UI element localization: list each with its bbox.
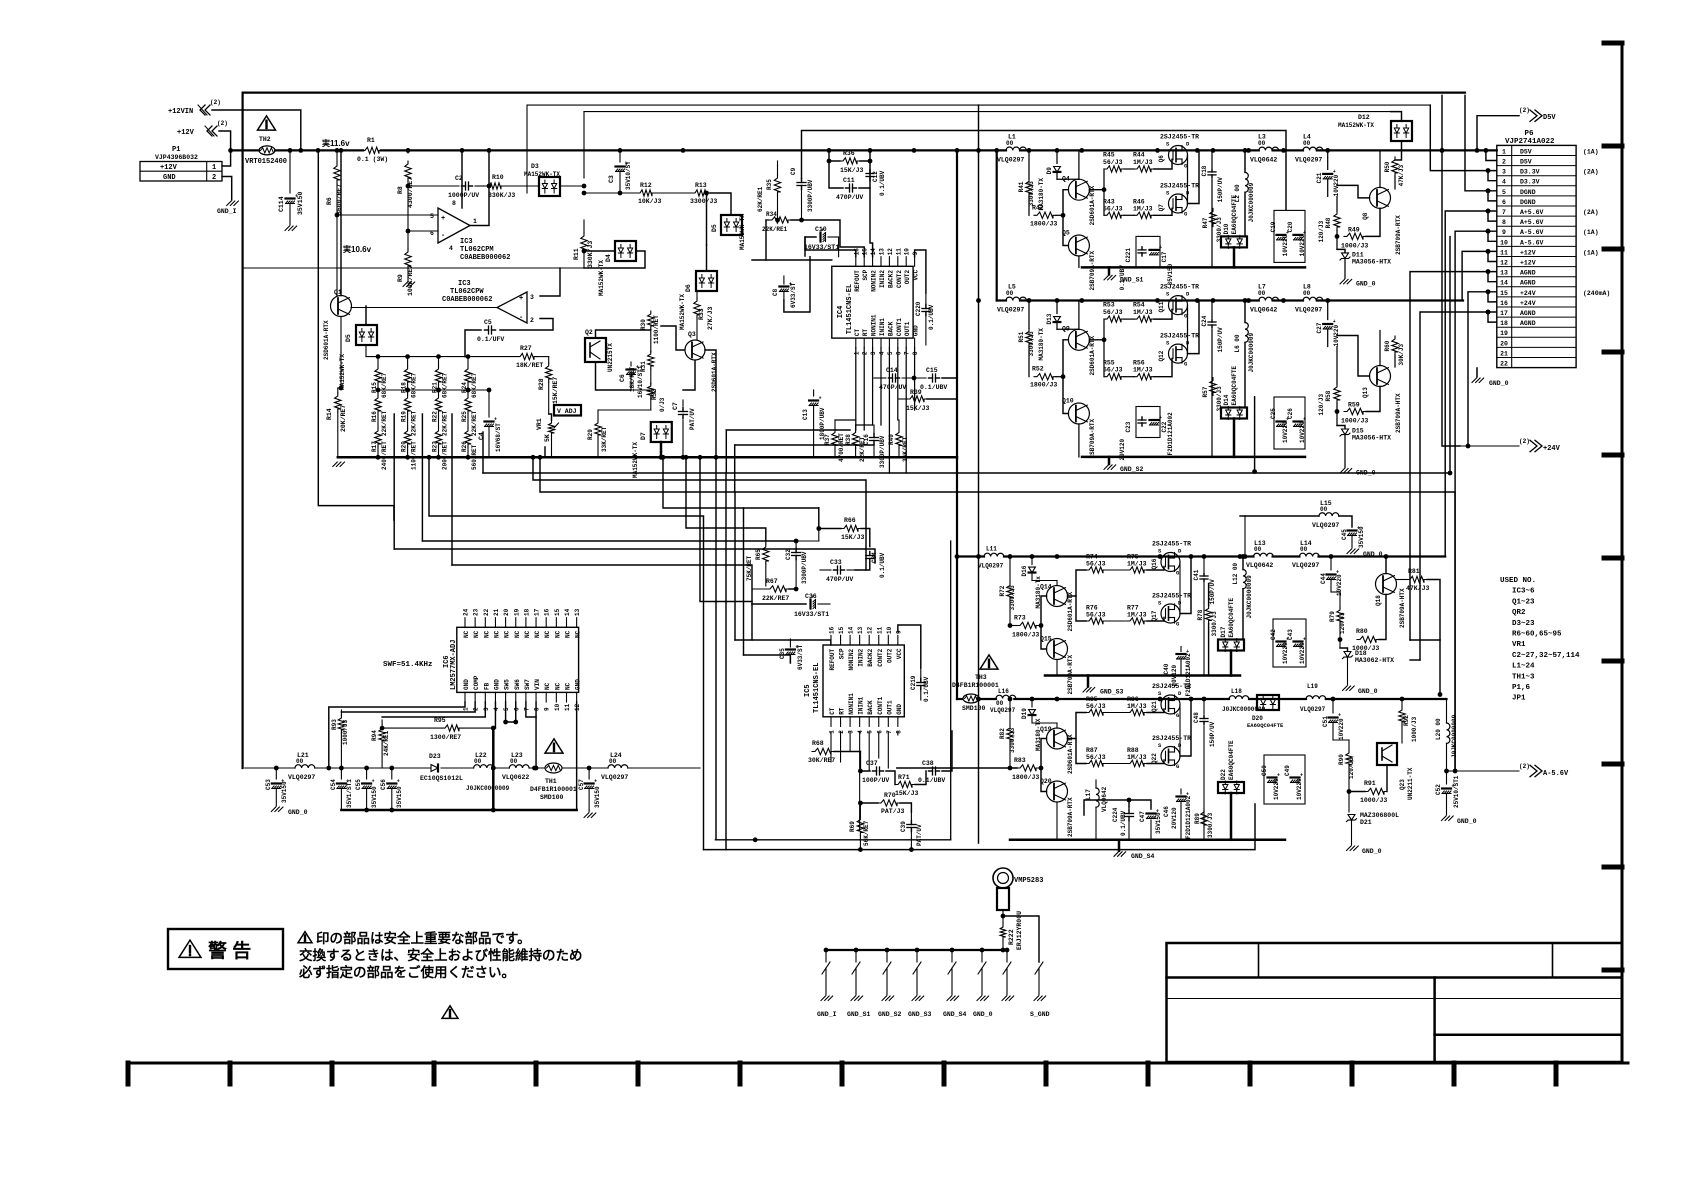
resistor R73 xyxy=(1017,622,1039,628)
resistor R85 xyxy=(1086,709,1106,715)
capacitor C9 xyxy=(801,179,803,183)
svg-text:Q17: Q17 xyxy=(1151,610,1158,621)
svg-text:8: 8 xyxy=(534,707,541,711)
svg-text:2SD601A-RTX: 2SD601A-RTX xyxy=(323,320,330,360)
svg-text:56/J3: 56/J3 xyxy=(1086,612,1106,619)
svg-text:VR1: VR1 xyxy=(1512,641,1526,649)
op-amp IC3 unit A xyxy=(438,208,470,243)
svg-text:D22: D22 xyxy=(1220,769,1227,780)
svg-text:SMD100: SMD100 xyxy=(540,794,564,801)
svg-text:16: 16 xyxy=(544,608,551,616)
svg-text:15K/J3: 15K/J3 xyxy=(895,790,919,797)
svg-text:D6: D6 xyxy=(685,284,692,292)
svg-text:6: 6 xyxy=(1502,199,1506,206)
resistor R40 xyxy=(896,430,902,449)
svg-text:GND_S1: GND_S1 xyxy=(847,1011,871,1018)
svg-text:35V150: 35V150 xyxy=(1155,812,1162,834)
wire staircase into IC5 xyxy=(751,604,753,640)
title block outer box xyxy=(1167,943,1623,1062)
diode pair D7 xyxy=(651,422,672,442)
svg-text:3300/J3: 3300/J3 xyxy=(1009,585,1016,611)
resistor R39 xyxy=(907,396,927,402)
svg-text:2SD601A-RTX: 2SD601A-RTX xyxy=(1089,185,1096,225)
svg-text:R30: R30 xyxy=(640,319,647,330)
svg-text:D15: D15 xyxy=(1352,428,1364,435)
svg-text:22K/RET: 22K/RET xyxy=(411,410,418,436)
svg-text:35V150: 35V150 xyxy=(594,786,601,808)
svg-text:0.1 (3W): 0.1 (3W) xyxy=(357,156,388,163)
svg-text:16V68/ST: 16V68/ST xyxy=(495,423,502,452)
svg-text:3300/J3: 3300/J3 xyxy=(1207,812,1214,838)
svg-text:1M/J3: 1M/J3 xyxy=(1127,561,1147,568)
svg-text:D16: D16 xyxy=(1021,565,1028,576)
transistor Q10 xyxy=(1068,403,1089,424)
wire ground-collect bus xyxy=(826,949,1007,951)
transistor Q9 xyxy=(1068,329,1089,350)
svg-text:VLQ0642: VLQ0642 xyxy=(1246,562,1273,569)
svg-text:R56: R56 xyxy=(1133,360,1145,367)
mosfet Q21 xyxy=(1161,695,1180,714)
svg-text:(2A): (2A) xyxy=(1583,209,1599,216)
capacitor C55 xyxy=(366,768,368,779)
svg-text:15K/J3: 15K/J3 xyxy=(840,167,864,174)
wire C5 left to ladder xyxy=(465,330,481,357)
svg-text:(1A): (1A) xyxy=(1583,229,1599,236)
resistor R76 xyxy=(1086,618,1106,624)
ground drop GND_0 xyxy=(980,948,985,953)
inductor L6 xyxy=(1245,323,1248,343)
svg-text:C42: C42 xyxy=(1270,629,1277,640)
svg-text:C16: C16 xyxy=(863,434,870,445)
wire gate network xyxy=(1068,713,1087,739)
svg-text:OUT1: OUT1 xyxy=(886,700,893,715)
svg-text:C5: C5 xyxy=(484,319,492,326)
svg-text:1000/J3: 1000/J3 xyxy=(1341,242,1368,249)
zener D21 xyxy=(1348,790,1350,812)
resistor R77 xyxy=(1127,618,1147,624)
svg-text:56/J3: 56/J3 xyxy=(1103,159,1123,166)
resistor R19 xyxy=(407,385,409,395)
svg-text:C12: C12 xyxy=(872,171,879,182)
resistor R31 xyxy=(650,329,652,352)
wire Q8 wiring xyxy=(1366,387,1380,412)
wire mosfet drains xyxy=(1187,155,1189,204)
svg-text:R6: R6 xyxy=(326,197,333,205)
capacitor C114 xyxy=(289,150,291,193)
resistor R82 xyxy=(1009,699,1011,725)
svg-text:2SD601A-RTX: 2SD601A-RTX xyxy=(1089,335,1096,375)
svg-text:R83: R83 xyxy=(1014,757,1026,764)
svg-text:4: 4 xyxy=(493,707,500,711)
svg-text:5: 5 xyxy=(1502,189,1506,196)
svg-text:15: 15 xyxy=(838,626,845,634)
IC6 pin 6 (SW6) xyxy=(515,692,517,702)
wire A-5.6V node xyxy=(1444,769,1449,774)
wire Q1 collector xyxy=(340,150,342,295)
resistor R81 xyxy=(1407,576,1427,582)
svg-text:D18: D18 xyxy=(1355,650,1367,657)
svg-text:00: 00 xyxy=(1006,290,1014,297)
wire IC4 pin wiring to R37/R38 xyxy=(835,419,856,421)
ground drop GND_S2 xyxy=(885,948,890,953)
svg-text:8: 8 xyxy=(452,200,456,207)
svg-text:11: 11 xyxy=(564,703,571,711)
IC6 pin 17 (NC) xyxy=(535,618,537,628)
svg-text:R68: R68 xyxy=(812,740,824,747)
wire long route y516 xyxy=(429,457,704,849)
svg-text:15: 15 xyxy=(862,248,869,256)
svg-text:VLQ0297: VLQ0297 xyxy=(1300,706,1326,713)
inductor L15 xyxy=(1319,513,1339,516)
svg-text:C219: C219 xyxy=(910,675,917,690)
svg-text:6: 6 xyxy=(513,707,520,711)
svg-text:1: 1 xyxy=(473,218,477,225)
IC6 pin 24 (NC) xyxy=(464,618,466,628)
svg-text:11: 11 xyxy=(895,248,902,256)
svg-text:EA60QC04FTE: EA60QC04FTE xyxy=(1228,740,1235,780)
wire +24V from converter xyxy=(1442,95,1460,446)
thermistor TH1 warning xyxy=(545,739,563,753)
svg-text:C13: C13 xyxy=(802,409,809,420)
svg-text:(2): (2) xyxy=(1519,763,1530,770)
svg-text:3: 3 xyxy=(483,707,490,711)
capacitor C14 xyxy=(889,377,893,379)
svg-text:15K/J3: 15K/J3 xyxy=(841,534,865,541)
svg-text:+12V: +12V xyxy=(1520,260,1536,267)
IC5 section box bottom xyxy=(715,839,950,841)
svg-text:F2D1D121A002: F2D1D121A002 xyxy=(1167,412,1174,456)
svg-text:C33: C33 xyxy=(830,559,842,566)
mosfet Q11 xyxy=(1169,296,1188,315)
svg-text:C20: C20 xyxy=(1287,221,1294,232)
resistor R6 xyxy=(336,150,338,163)
svg-text:2: 2 xyxy=(862,351,869,355)
svg-text:C27: C27 xyxy=(1316,322,1323,333)
svg-text:35V150: 35V150 xyxy=(396,786,403,808)
svg-text:56/J3: 56/J3 xyxy=(1103,205,1123,212)
svg-text:10: 10 xyxy=(1500,239,1508,246)
svg-text:D19: D19 xyxy=(1021,708,1028,719)
capacitor C47 xyxy=(1147,812,1156,814)
svg-text:VLQ0297: VLQ0297 xyxy=(288,774,315,781)
wire VCC pin9 to C220 xyxy=(915,250,926,293)
svg-text:18K/RET: 18K/RET xyxy=(629,366,636,392)
svg-text:14: 14 xyxy=(1500,280,1508,287)
svg-text:+: + xyxy=(1300,773,1303,779)
svg-text:EA60QC04FTE: EA60QC04FTE xyxy=(1247,722,1284,729)
svg-text:R66: R66 xyxy=(844,517,856,524)
wire IC4 staircase to bundle xyxy=(726,429,850,431)
IC4 pin 15 (SCP) xyxy=(863,257,865,267)
svg-text:20: 20 xyxy=(1500,340,1508,347)
svg-text:2: 2 xyxy=(530,317,534,324)
svg-text:VLQ0297: VLQ0297 xyxy=(997,156,1024,163)
svg-text:2SB709A-RTX: 2SB709A-RTX xyxy=(1395,215,1402,255)
svg-text:C114: C114 xyxy=(278,196,285,212)
svg-text:14: 14 xyxy=(848,626,855,634)
IC5 pin 8 (GND) xyxy=(897,717,899,727)
IC4 pin 12 (BACK2) xyxy=(888,257,890,267)
svg-text:R80: R80 xyxy=(1356,628,1368,635)
wire R34 node to IC4 pin15 xyxy=(791,220,864,257)
svg-text:1000/J3: 1000/J3 xyxy=(1341,418,1368,425)
svg-text:C14: C14 xyxy=(886,367,898,374)
wire D12 top feed xyxy=(1391,112,1402,121)
svg-text:VLQ0622: VLQ0622 xyxy=(502,774,529,781)
svg-text:A-5.6V: A-5.6V xyxy=(1520,239,1544,246)
capacitor C40 xyxy=(1177,653,1186,655)
svg-text:Q7: Q7 xyxy=(1158,204,1165,212)
svg-text:00: 00 xyxy=(1300,546,1308,553)
svg-text:GND_0: GND_0 xyxy=(1489,380,1509,387)
svg-text:IC3~6: IC3~6 xyxy=(1512,588,1535,596)
wire L21 row xyxy=(245,767,295,769)
capacitor C25 loop xyxy=(1274,397,1305,449)
capacitor C46 xyxy=(1177,795,1186,797)
svg-text:C47: C47 xyxy=(1139,811,1146,822)
IC6 pin 12 (GND) xyxy=(576,692,578,702)
svg-text:2: 2 xyxy=(838,730,845,734)
svg-text:R90: R90 xyxy=(1338,754,1345,765)
svg-text:CONT1: CONT1 xyxy=(877,696,884,714)
resistor R86 xyxy=(1127,709,1147,715)
svg-text:3: 3 xyxy=(870,351,877,355)
wire P1 pin2 to GND_I xyxy=(222,177,232,201)
connector arrow +24V xyxy=(1460,445,1519,447)
svg-text:10V220: 10V220 xyxy=(1282,421,1289,443)
wire zener to gnd xyxy=(1344,259,1346,278)
svg-text:NONIN1: NONIN1 xyxy=(871,314,878,336)
svg-text:TL062CPM: TL062CPM xyxy=(460,246,494,254)
svg-text:GND: GND xyxy=(463,679,470,690)
svg-text:13: 13 xyxy=(1500,270,1508,277)
svg-text:2SJ2455-TR: 2SJ2455-TR xyxy=(1152,683,1191,690)
svg-text:NC: NC xyxy=(504,630,511,638)
svg-text:V ADJ: V ADJ xyxy=(557,408,577,415)
zener D18 xyxy=(1339,640,1341,649)
svg-text:D4FB1R100001: D4FB1R100001 xyxy=(530,786,577,793)
svg-text:EA60QC04FTE: EA60QC04FTE xyxy=(1231,365,1238,405)
svg-text:9: 9 xyxy=(544,707,551,711)
IC4 pin 10 (OUT2) xyxy=(905,257,907,267)
svg-text:D10: D10 xyxy=(1223,223,1230,234)
svg-text:R8: R8 xyxy=(397,186,404,194)
svg-text:BACK: BACK xyxy=(887,321,894,336)
wire route verticals to IC5 xyxy=(700,457,752,601)
IC5 pin 11 (CONT2) xyxy=(878,635,880,645)
resistor R83 xyxy=(1017,765,1039,771)
svg-text:1M/J3: 1M/J3 xyxy=(1133,367,1153,374)
wire opamp2 + input from top xyxy=(540,268,560,296)
mosfet Q16 xyxy=(1161,553,1180,572)
svg-text:GND_I: GND_I xyxy=(817,1011,837,1018)
resistor R53 xyxy=(1104,316,1124,322)
svg-text:R87: R87 xyxy=(1086,747,1098,754)
svg-text:NC: NC xyxy=(534,630,541,638)
svg-text:3300P/UBV: 3300P/UBV xyxy=(801,551,808,584)
svg-text:+: + xyxy=(1159,415,1162,421)
svg-text:S_GND: S_GND xyxy=(1030,1011,1050,1018)
svg-text:Q14: Q14 xyxy=(1040,584,1052,591)
svg-text:9: 9 xyxy=(912,251,919,255)
svg-text:NONIN1: NONIN1 xyxy=(848,693,855,715)
wire IC4 pin16 refout xyxy=(805,237,856,257)
svg-text:L17: L17 xyxy=(1085,789,1092,800)
wire opamp1 power xyxy=(461,150,463,208)
svg-text:BACK2: BACK2 xyxy=(867,648,874,666)
resistor R24 xyxy=(467,357,469,366)
wire mid verticals xyxy=(734,492,736,640)
resistor R44 xyxy=(1134,166,1154,172)
svg-text:15: 15 xyxy=(554,608,561,616)
svg-text:GND_S2: GND_S2 xyxy=(878,1011,902,1018)
resistor R46 xyxy=(1134,212,1154,218)
svg-text:20K/RE7: 20K/RE7 xyxy=(340,405,347,432)
wire vertical x726 xyxy=(725,473,727,850)
svg-text:R14: R14 xyxy=(326,408,333,420)
svg-text:GND_0: GND_0 xyxy=(288,809,308,816)
resistor R30 xyxy=(648,311,654,329)
capacitor C224 xyxy=(1128,810,1130,814)
svg-text:10V220: 10V220 xyxy=(1282,642,1289,664)
svg-text:12: 12 xyxy=(1500,260,1508,267)
ground below C52 xyxy=(1442,816,1447,821)
svg-text:R49: R49 xyxy=(1348,226,1360,233)
terminal VMP5283 xyxy=(993,868,1013,888)
wire drains xyxy=(1179,705,1181,757)
svg-text:470P/UV: 470P/UV xyxy=(826,576,853,583)
svg-text:C9: C9 xyxy=(790,167,797,175)
wire bottom route y849.6 xyxy=(704,804,1256,850)
resistor R22 xyxy=(438,385,440,395)
svg-text:56/J3: 56/J3 xyxy=(1086,561,1106,568)
svg-text:10V220: 10V220 xyxy=(1299,421,1306,443)
IC6 pin 10 (NC) xyxy=(555,692,557,702)
ground S_GND xyxy=(1035,962,1043,974)
capacitor C8 (6V33/ST) xyxy=(779,285,788,287)
svg-text:R33: R33 xyxy=(698,308,705,320)
capacitor C15 xyxy=(929,377,933,379)
capacitor C48 xyxy=(1203,699,1205,714)
wire rail3 xyxy=(957,555,984,557)
transistor Q3 xyxy=(685,340,705,360)
resistor R37 xyxy=(832,430,838,449)
connector P6 row 8 xyxy=(1497,225,1576,227)
IC5 pin 5 (BACK) xyxy=(868,717,870,727)
svg-text:J0JKC000009: J0JKC000009 xyxy=(1248,182,1255,222)
svg-text:C224: C224 xyxy=(1112,807,1119,822)
svg-text:C32: C32 xyxy=(785,549,792,560)
wire R66 loop xyxy=(819,508,841,529)
wire IC6 pin wires xyxy=(329,702,465,768)
connector P6 row 20 xyxy=(1497,346,1576,348)
transistor Q20 xyxy=(1047,781,1068,802)
svg-text:LM2577MX-ADJ: LM2577MX-ADJ xyxy=(450,640,458,690)
svg-text:00: 00 xyxy=(1320,506,1328,513)
ground GND_S3 xyxy=(1087,676,1090,687)
svg-text:OUT2: OUT2 xyxy=(886,648,893,663)
IC4 pin 16 (REFOUT) xyxy=(855,257,857,267)
svg-text:00: 00 xyxy=(474,758,482,765)
svg-text:35V150: 35V150 xyxy=(1358,526,1365,548)
wire bottom bus / GND_S2 xyxy=(1082,456,1305,459)
svg-text:R17: R17 xyxy=(371,441,378,452)
wire Q3 wiring xyxy=(683,361,695,391)
svg-text:1M/J3: 1M/J3 xyxy=(1127,612,1147,619)
svg-text:+: + xyxy=(1159,245,1162,251)
IC6 pin 19 (NC) xyxy=(515,618,517,628)
svg-text:R48: R48 xyxy=(1325,217,1332,228)
wire IC5 OUT1 to R83 xyxy=(897,767,1017,769)
resistor R56 xyxy=(1134,374,1154,380)
diode D13 xyxy=(1056,301,1058,314)
svg-text:2SJ2455-TR: 2SJ2455-TR xyxy=(1160,182,1199,189)
capacitor C42/C43 loop xyxy=(1273,619,1306,667)
transistor Q1 xyxy=(331,296,352,317)
inductor L13 xyxy=(1254,553,1274,556)
svg-text:2SD601A-RTX: 2SD601A-RTX xyxy=(1067,734,1074,774)
svg-text:EA60QC04FTE: EA60QC04FTE xyxy=(1228,597,1235,637)
svg-text:+: + xyxy=(1277,773,1280,779)
resistor R95 xyxy=(442,725,462,731)
resistor R1 xyxy=(362,147,382,153)
svg-text:R82: R82 xyxy=(999,728,1006,739)
wire R10 to D3 xyxy=(504,185,539,187)
svg-text:3300/J3: 3300/J3 xyxy=(690,198,717,205)
IC5 pin 9 (VCC) xyxy=(897,635,899,645)
wire IC4 bottom pins down xyxy=(855,348,857,430)
svg-text:+24V: +24V xyxy=(1520,300,1536,307)
svg-text:10: 10 xyxy=(554,703,561,711)
svg-text:22K/RET: 22K/RET xyxy=(442,410,449,436)
svg-text:+12VIN: +12VIN xyxy=(168,108,193,116)
connector P6 row 11 xyxy=(1497,256,1576,258)
svg-text:R58: R58 xyxy=(1325,390,1332,401)
svg-text:NC: NC xyxy=(554,682,561,690)
svg-text:ININ1: ININ1 xyxy=(858,696,865,714)
connector P6 row 18 xyxy=(1497,326,1576,328)
wire R27 to R28 xyxy=(537,356,549,358)
wire D3 out xyxy=(560,185,584,187)
svg-text:+: + xyxy=(372,779,375,785)
svg-text:C48: C48 xyxy=(1193,712,1200,723)
transistor Q18 xyxy=(1376,574,1397,595)
svg-text:SMD100: SMD100 xyxy=(962,705,986,712)
transistor Q19 xyxy=(1047,728,1068,749)
svg-text:D11: D11 xyxy=(1352,251,1364,258)
svg-text:0.1/UBV: 0.1/UBV xyxy=(920,384,947,391)
svg-text:GND_0: GND_0 xyxy=(1457,818,1477,825)
svg-text:(2): (2) xyxy=(1519,438,1530,445)
svg-text:R71: R71 xyxy=(898,774,910,781)
IC6 pin 20 (NC) xyxy=(505,618,507,628)
resistor R54 xyxy=(1134,316,1154,322)
svg-text:IC3: IC3 xyxy=(460,238,473,246)
svg-text:8: 8 xyxy=(895,730,902,734)
svg-text:NC: NC xyxy=(473,630,480,638)
resistor R49 xyxy=(1344,233,1366,239)
svg-text:D7: D7 xyxy=(640,432,647,440)
diode pair D6 xyxy=(696,271,717,291)
svg-text:15K/RE7: 15K/RE7 xyxy=(552,377,559,404)
svg-text:16: 16 xyxy=(829,626,836,634)
svg-text:MAZ306800L: MAZ306800L xyxy=(1360,812,1399,819)
svg-text:C11: C11 xyxy=(843,177,855,184)
wire R67 node xyxy=(789,588,796,590)
connector P6 row 1 xyxy=(1497,155,1576,157)
resistor R66 xyxy=(841,525,861,531)
capacitor C33 xyxy=(834,569,838,571)
